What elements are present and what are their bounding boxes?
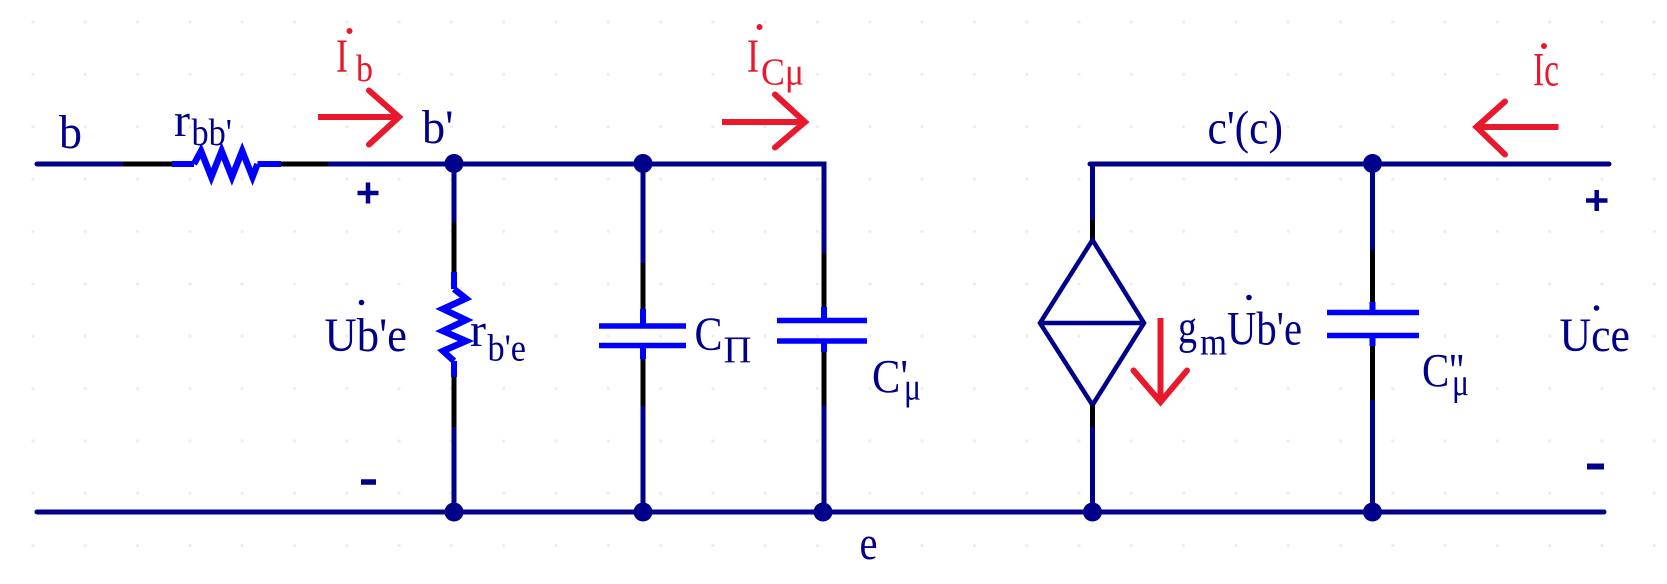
node c'(c) label xyxy=(1208,102,1284,155)
node C''mu top junction dot xyxy=(1363,154,1382,173)
svg-text:C: C xyxy=(695,308,723,361)
svg-text:b: b xyxy=(59,106,82,159)
wire black segment above Cpi xyxy=(641,263,646,309)
wire black segment above C'mu xyxy=(822,253,827,307)
wire black segment below rb'e xyxy=(452,377,457,427)
junction dot C'mu bottom xyxy=(814,503,833,522)
wire b input (navy) xyxy=(37,162,123,167)
svg-text:r: r xyxy=(470,304,486,357)
wire rb'e to bottom rail (navy) xyxy=(452,427,457,512)
svg-text:Ub'e: Ub'e xyxy=(1227,303,1302,356)
label gm Ub'e xyxy=(1178,295,1302,364)
label Cpi xyxy=(695,308,752,372)
wire black segment above C''mu xyxy=(1370,250,1375,302)
plus sign Ub'e xyxy=(358,183,379,204)
current direction arrow of source (red) xyxy=(1134,318,1188,402)
label rbb' xyxy=(174,94,232,154)
svg-text:Ic: Ic xyxy=(1533,44,1559,97)
wire b' node down (navy) xyxy=(452,164,457,222)
wire black segment below Cpi xyxy=(641,359,646,406)
current arrow ICmu xyxy=(722,95,805,148)
svg-text:g: g xyxy=(1178,301,1197,354)
svg-text:Cμ: Cμ xyxy=(761,52,804,94)
junction dot C''mu bottom xyxy=(1363,503,1382,522)
wire black segment left of rbb' xyxy=(123,162,172,167)
wire Cpi to bottom rail (navy) xyxy=(641,406,646,512)
junction dot Cpi bottom xyxy=(634,503,653,522)
wire black segment below source xyxy=(1090,405,1095,427)
label Ib (red) xyxy=(336,28,373,90)
svg-text:r: r xyxy=(174,94,190,147)
svg-text:c'(c): c'(c) xyxy=(1208,102,1284,155)
svg-text:Uce: Uce xyxy=(1560,309,1631,362)
wire corner into C'mu (navy) xyxy=(822,162,827,254)
wire black segment right of rbb' xyxy=(281,162,328,167)
label Uce xyxy=(1560,305,1631,362)
svg-text:I: I xyxy=(336,30,348,83)
wire source to bottom rail (navy) xyxy=(1090,427,1095,512)
node Cpi top junction dot xyxy=(634,154,653,173)
minus sign Uce xyxy=(1587,464,1604,470)
svg-text:μ: μ xyxy=(904,367,921,409)
label Ic (red) xyxy=(1533,43,1559,97)
label Ub'e (left) xyxy=(325,300,408,362)
svg-text:Ub'e: Ub'e xyxy=(325,309,408,362)
wire C''mu to bottom rail (navy) xyxy=(1370,400,1375,512)
minus sign Ub'e xyxy=(361,479,376,485)
svg-text:μ: μ xyxy=(1452,362,1469,404)
node b' junction dot xyxy=(445,154,464,173)
label C''mu xyxy=(1422,345,1469,405)
wire corner into current source (navy) xyxy=(1090,162,1095,221)
junction dot rb'e bottom xyxy=(445,503,464,522)
dependent current source gmUb'e (diamond) xyxy=(1040,240,1144,405)
wire black segment below C'mu xyxy=(822,352,827,405)
label ICmu (red) xyxy=(747,24,804,94)
svg-text:m: m xyxy=(1200,322,1227,364)
plus sign Uce xyxy=(1586,190,1608,211)
wire Cpi top (navy) xyxy=(641,164,646,263)
current arrow Ib xyxy=(318,91,399,145)
wire black segment above source xyxy=(1090,220,1095,241)
wire bottom rail e (navy) xyxy=(37,510,1604,515)
capacitor Cpi xyxy=(599,309,686,359)
svg-text:I: I xyxy=(747,30,759,83)
wire top right rail (navy) xyxy=(1090,162,1609,167)
svg-text:b: b xyxy=(356,48,373,90)
node e label xyxy=(860,517,878,570)
wire C''mu top (navy) xyxy=(1370,164,1375,250)
resistor rb'e (vertical zigzag) xyxy=(443,272,466,377)
label C'mu xyxy=(872,351,921,409)
svg-text:e: e xyxy=(860,517,878,570)
wire black segment below C''mu xyxy=(1370,346,1375,400)
svg-text:Π: Π xyxy=(724,330,752,372)
svg-text:b'e: b'e xyxy=(488,328,527,370)
node b' label xyxy=(422,101,454,154)
svg-text:b': b' xyxy=(422,101,454,154)
wire C'mu to bottom rail (navy) xyxy=(822,405,827,512)
current arrow Ic xyxy=(1477,102,1559,155)
node b label xyxy=(59,106,82,159)
svg-text:bb': bb' xyxy=(192,112,233,154)
wire rbb' to C'mu corner (navy, through b' and Cpi nodes) xyxy=(328,162,824,167)
wire black segment above rb'e xyxy=(452,222,457,272)
svg-text:C': C' xyxy=(872,351,908,404)
capacitor C'mu xyxy=(777,307,867,352)
capacitor C''mu xyxy=(1327,302,1419,346)
label rb'e xyxy=(470,304,526,370)
junction dot source bottom xyxy=(1083,503,1102,522)
resistor rbb' (horizontal zigzag) xyxy=(172,151,281,177)
